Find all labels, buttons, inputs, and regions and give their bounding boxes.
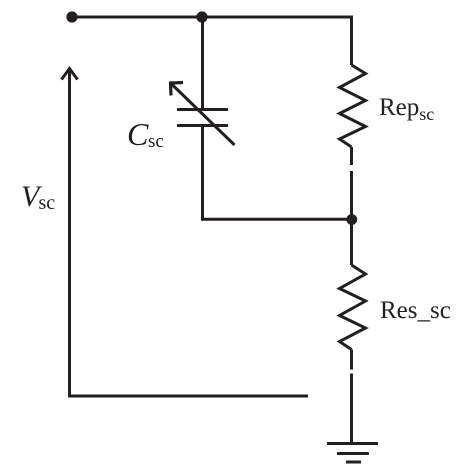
wire: top horizontal rail (72, 16, 352, 19)
svg-text:C: C (127, 116, 149, 152)
node: top-left terminal dot (66, 11, 77, 22)
capacitor C_sc bottom plate (177, 124, 228, 127)
wire: segment down to ground (350, 374, 353, 444)
ground bar 2 (middle) (337, 452, 369, 455)
capacitor C_sc top plate (177, 108, 228, 111)
capacitor arrow head barbs (171, 83, 184, 96)
ground bar 3 (bottom) (346, 461, 361, 464)
wire: right branch upper vertical (350, 16, 353, 66)
wire: horizontal from capacitor branch to junction (203, 218, 352, 221)
node: top junction dot (196, 11, 207, 22)
svg-text:sc: sc (39, 192, 56, 214)
resistor Rep_sc (340, 65, 366, 147)
capacitor variable arrow (diagonal) (172, 84, 235, 145)
wire: lead below Rep_sc (350, 147, 353, 165)
svg-text:Res_sc: Res_sc (380, 297, 451, 324)
wire: lower branch from junction to Res_sc (350, 220, 353, 266)
wire: bottom reference line (68, 395, 308, 398)
wire: capacitor branch lower vertical (201, 126, 204, 221)
wire: lead below Res_sc (350, 350, 353, 370)
resistor Res_sc (340, 265, 366, 350)
source arrow V_sc head (62, 69, 78, 80)
node: middle junction dot (346, 214, 357, 225)
svg-text:Repsc: Repsc (379, 94, 434, 124)
wire: capacitor top lead (201, 17, 204, 110)
wire: segment down to middle junction (350, 171, 353, 221)
svg-text:sc: sc (148, 131, 164, 152)
source arrow V_sc shaft (68, 69, 71, 397)
ground bar 1 (top) (327, 442, 378, 445)
